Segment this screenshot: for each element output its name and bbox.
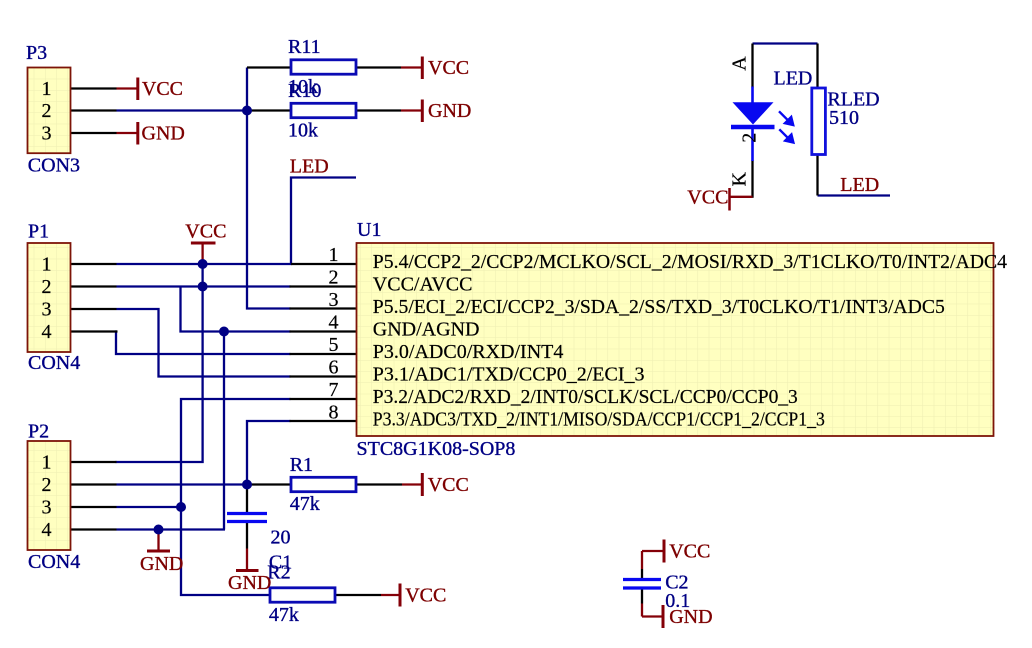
- svg-text:VCC: VCC: [669, 540, 710, 562]
- svg-text:LED: LED: [840, 174, 879, 196]
- svg-text:2: 2: [329, 266, 339, 288]
- svg-text:A: A: [729, 56, 751, 71]
- svg-text:LED: LED: [290, 156, 329, 178]
- svg-text:1: 1: [329, 244, 339, 266]
- svg-text:4: 4: [42, 519, 52, 541]
- svg-text:VCC: VCC: [687, 186, 728, 208]
- svg-text:VCC: VCC: [405, 585, 446, 607]
- svg-text:3: 3: [42, 299, 52, 321]
- svg-text:3: 3: [329, 289, 339, 311]
- svg-text:P5.4/CCP2_2/CCP2/MCLKO/SCL_2/M: P5.4/CCP2_2/CCP2/MCLKO/SCL_2/MOSI/RXD_3/…: [373, 251, 1007, 273]
- svg-text:2: 2: [42, 276, 52, 298]
- svg-text:510: 510: [829, 107, 859, 129]
- svg-text:STC8G1K08-SOP8: STC8G1K08-SOP8: [357, 438, 516, 460]
- svg-text:GND: GND: [142, 123, 185, 145]
- svg-text:6: 6: [329, 356, 339, 378]
- svg-text:U1: U1: [357, 219, 381, 241]
- svg-text:P5.5/ECI_2/ECI/CCP2_3/SDA_2/SS: P5.5/ECI_2/ECI/CCP2_3/SDA_2/SS/TXD_3/T0C…: [373, 296, 945, 318]
- svg-text:1: 1: [42, 78, 52, 100]
- svg-text:VCC: VCC: [185, 221, 226, 243]
- svg-text:P3.2/ADC2/RXD_2/INT0/SCLK/SCL/: P3.2/ADC2/RXD_2/INT0/SCLK/SCL/CCP0/CCP0_…: [373, 386, 798, 408]
- svg-text:7: 7: [329, 379, 339, 401]
- svg-text:P3.3/ADC3/TXD_2/INT1/MISO/SDA/: P3.3/ADC3/TXD_2/INT1/MISO/SDA/CCP1/CCP1_…: [373, 409, 825, 431]
- svg-text:VCC/AVCC: VCC/AVCC: [373, 274, 473, 296]
- svg-text:CON4: CON4: [28, 352, 80, 374]
- svg-text:3: 3: [42, 123, 52, 145]
- svg-text:20: 20: [271, 527, 291, 549]
- svg-text:47k: 47k: [269, 604, 299, 626]
- svg-text:47k: 47k: [290, 493, 320, 515]
- svg-text:K: K: [728, 171, 750, 186]
- svg-text:1: 1: [42, 452, 52, 474]
- svg-text:CON4: CON4: [28, 551, 80, 573]
- svg-text:8: 8: [329, 401, 339, 423]
- svg-text:R10: R10: [288, 80, 321, 102]
- svg-text:4: 4: [329, 311, 339, 333]
- svg-text:10k: 10k: [288, 120, 318, 142]
- svg-text:2: 2: [738, 133, 760, 143]
- svg-text:1: 1: [42, 254, 52, 276]
- svg-text:4: 4: [42, 321, 52, 343]
- svg-text:2: 2: [42, 474, 52, 496]
- svg-text:5: 5: [329, 334, 339, 356]
- svg-text:GND: GND: [669, 606, 712, 628]
- svg-text:VCC: VCC: [428, 474, 469, 496]
- svg-text:3: 3: [42, 497, 52, 519]
- svg-text:GND/AGND: GND/AGND: [373, 319, 480, 341]
- svg-text:GND: GND: [428, 100, 471, 122]
- svg-text:LED: LED: [774, 68, 813, 90]
- svg-text:P3.1/ADC1/TXD/CCP0_2/ECI_3: P3.1/ADC1/TXD/CCP0_2/ECI_3: [373, 364, 645, 386]
- svg-text:R1: R1: [290, 454, 313, 476]
- svg-text:P3: P3: [26, 42, 47, 64]
- svg-text:P3.0/ADC0/RXD/INT4: P3.0/ADC0/RXD/INT4: [373, 341, 564, 363]
- svg-text:VCC: VCC: [142, 78, 183, 100]
- svg-text:GND: GND: [140, 553, 183, 575]
- svg-text:P2: P2: [28, 421, 49, 443]
- svg-text:2: 2: [42, 100, 52, 122]
- svg-text:VCC: VCC: [428, 57, 469, 79]
- svg-text:CON3: CON3: [28, 154, 80, 176]
- svg-text:P1: P1: [28, 221, 49, 243]
- svg-text:GND: GND: [228, 572, 271, 594]
- svg-text:R11: R11: [288, 36, 321, 58]
